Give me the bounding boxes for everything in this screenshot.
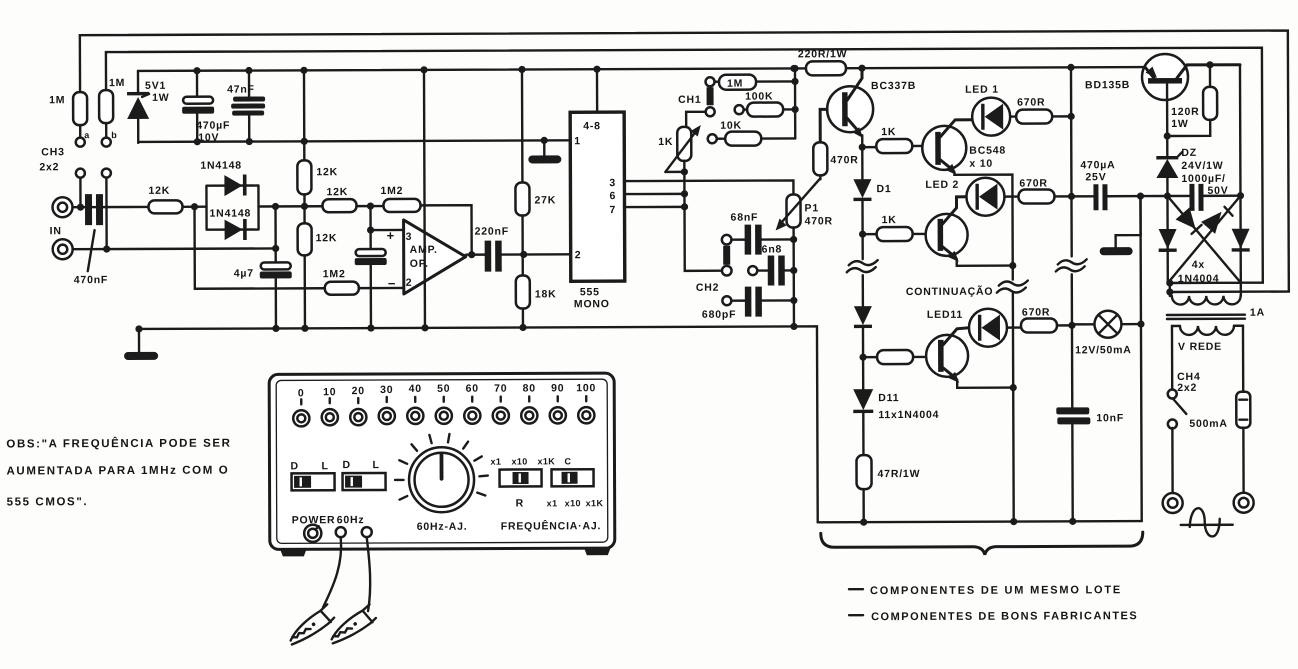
svg-text:3: 3	[609, 177, 616, 189]
label CH3 2x2	[39, 146, 65, 173]
svg-text:1N4148: 1N4148	[210, 208, 252, 220]
lamp 12V/50mA	[1072, 311, 1141, 357]
svg-text:CH3: CH3	[41, 146, 64, 158]
svg-text:11x1N4004: 11x1N4004	[878, 409, 939, 421]
svg-text:80: 80	[523, 382, 536, 394]
node 12K/diode-box	[191, 203, 198, 210]
svg-text:100K: 100K	[745, 91, 773, 103]
svg-text:+: +	[387, 228, 395, 243]
svg-text:AUMENTADA PARA 1MHz COM O: AUMENTADA PARA 1MHz COM O	[6, 465, 229, 478]
rectifier bridge 4x 1N4004	[1158, 196, 1249, 285]
capacitor 4u7	[234, 262, 292, 332]
wire collector down to bridge	[1236, 65, 1244, 200]
resistor 1K base Q11	[863, 350, 925, 364]
svg-text:D1: D1	[876, 183, 891, 195]
svg-text:CH1: CH1	[678, 94, 701, 106]
resistor 27K	[515, 66, 556, 255]
svg-text:220nF: 220nF	[475, 226, 509, 238]
svg-text:MONO: MONO	[574, 298, 610, 310]
svg-text:470R: 470R	[830, 154, 858, 166]
jack IN top	[52, 197, 72, 217]
resistor R 1M (left a)	[49, 92, 87, 138]
svg-text:CH2: CH2	[696, 282, 719, 294]
instrument panel body	[269, 373, 615, 549]
ground left	[124, 329, 158, 360]
svg-text:D: D	[342, 459, 350, 471]
wire rail +V y69	[138, 67, 1145, 71]
LED 2	[925, 178, 1004, 216]
svg-text:1K: 1K	[658, 136, 673, 148]
resistor 670R (LED2)	[1004, 177, 1071, 203]
wire box to node	[259, 205, 323, 208]
wire range bus	[791, 65, 798, 139]
resistor 10K range	[708, 119, 796, 145]
svg-text:OBS:"A FREQUÊNCIA PODE SER: OBS:"A FREQUÊNCIA PODE SER	[6, 437, 231, 451]
svg-text:x10: x10	[511, 456, 527, 466]
wire pin6	[624, 190, 688, 197]
wire CH1 to 1K pot	[686, 112, 706, 127]
svg-text:555 CMOS".: 555 CMOS".	[7, 496, 89, 508]
wire DC rail to bridge	[1140, 192, 1171, 199]
svg-text:18K: 18K	[535, 288, 557, 300]
svg-text:BC548: BC548	[969, 145, 1006, 157]
panel scale ticks	[301, 396, 586, 404]
svg-text:100: 100	[576, 382, 596, 394]
wire pot to CH2	[684, 172, 721, 271]
panel foot left	[280, 548, 307, 556]
diode pair 1N4148 box	[200, 159, 258, 240]
ground mid-right	[1099, 196, 1140, 255]
node chain/1K11	[859, 354, 866, 361]
svg-text:FREQUÊNCIA·AJ.: FREQUÊNCIA·AJ.	[501, 519, 602, 532]
svg-text:x1K: x1K	[586, 498, 604, 508]
svg-text:x1: x1	[490, 457, 501, 467]
svg-text:50V: 50V	[1207, 185, 1228, 197]
svg-text:10nF: 10nF	[1096, 412, 1124, 424]
node P1/68nF	[790, 236, 797, 243]
switch CH3 pole a	[76, 169, 85, 208]
brace components	[821, 532, 1143, 555]
svg-text:C: C	[564, 456, 571, 466]
node 12K column	[301, 203, 308, 210]
svg-text:12V/50mA: 12V/50mA	[1075, 344, 1132, 356]
panel foot right	[584, 547, 611, 555]
svg-text:D: D	[290, 460, 298, 472]
node DZ top	[1164, 132, 1171, 139]
panel switch R multiplier	[490, 456, 571, 509]
svg-text:24V/1W: 24V/1W	[1181, 160, 1223, 172]
svg-text:LED11: LED11	[927, 309, 963, 321]
svg-text:1M: 1M	[109, 77, 125, 89]
wire IN bottom	[73, 247, 276, 250]
svg-text:10: 10	[323, 386, 336, 398]
svg-text:70: 70	[494, 383, 507, 395]
svg-text:1W: 1W	[152, 92, 169, 104]
svg-text:R: R	[516, 497, 524, 509]
switch CH4 2x2	[1167, 326, 1200, 429]
node 670R-3	[1068, 322, 1075, 329]
svg-text:555: 555	[580, 286, 600, 298]
note OBS	[6, 437, 231, 509]
node box out	[272, 203, 279, 210]
svg-text:4-8: 4-8	[583, 120, 601, 132]
panel knob 60Hz-AJ	[395, 434, 488, 533]
svg-text:OP.: OP.	[410, 258, 429, 270]
svg-text:4µ7: 4µ7	[234, 268, 254, 280]
svg-text:2: 2	[406, 277, 413, 289]
jack IN bottom	[50, 225, 73, 259]
svg-text:10K: 10K	[720, 120, 742, 132]
svg-text:40: 40	[409, 383, 422, 395]
alligator clip 2	[325, 604, 378, 645]
capacitor 1000uF/50V	[1167, 173, 1240, 211]
svg-text:x1: x1	[547, 498, 558, 508]
node opamp output	[466, 251, 486, 258]
node bridge bottom	[1166, 279, 1173, 296]
svg-text:x1K: x1K	[537, 456, 555, 466]
svg-text:670R: 670R	[1017, 96, 1045, 108]
wire 555 pins 4-8 to rail	[593, 66, 600, 113]
switch CH2	[696, 235, 732, 294]
diode zener DZ 24V/1W	[1156, 136, 1223, 196]
node 670R-2	[1009, 193, 1075, 269]
capacitor 220nF	[475, 225, 571, 271]
svg-text:BD135B: BD135B	[1085, 79, 1130, 91]
node pot bottom	[681, 168, 688, 175]
wire pin3 to P1	[624, 180, 793, 195]
svg-text:68nF: 68nF	[731, 212, 759, 224]
capacitor 47nF	[227, 67, 265, 145]
switch CH3 contact a	[76, 130, 91, 147]
svg-text:670R: 670R	[1019, 177, 1047, 189]
resistor R 1M (left b)	[99, 77, 125, 138]
capacitor 680pF	[702, 286, 794, 320]
node a-pole on IN wire	[77, 204, 84, 211]
transformer primary V REDE	[1178, 326, 1234, 353]
svg-text:470µF: 470µF	[196, 120, 230, 132]
svg-text:DZ: DZ	[1181, 147, 1197, 159]
svg-text:x10: x10	[565, 498, 581, 508]
annotation line 1	[849, 584, 1122, 597]
svg-text:220R/1W: 220R/1W	[798, 48, 847, 60]
node D1/1K	[859, 231, 866, 238]
potentiometer 1K	[658, 125, 701, 172]
LED11	[927, 309, 1007, 347]
resistor 12K vertical lower	[298, 206, 338, 332]
resistor 470R wiper	[813, 142, 858, 179]
diode D1	[853, 147, 891, 234]
wire bottom rail right section	[818, 521, 1142, 522]
svg-text:0: 0	[298, 387, 305, 399]
node pin2	[520, 251, 527, 258]
diode chain middle	[854, 306, 872, 357]
svg-text:b: b	[111, 130, 117, 140]
wire bottom rail left section	[135, 323, 817, 525]
svg-text:12K: 12K	[148, 185, 170, 197]
svg-text:12K: 12K	[326, 186, 348, 198]
svg-text:IN: IN	[50, 225, 62, 237]
resistor 12K vertical upper	[297, 67, 338, 207]
IC U2 555 MONO	[570, 112, 625, 310]
svg-text:90: 90	[551, 382, 564, 394]
wire +input	[367, 206, 404, 234]
wire top outer loop	[80, 31, 1289, 297]
svg-text:47nF: 47nF	[227, 84, 255, 96]
capacitor 68nF	[731, 211, 794, 254]
svg-text:COMPONENTES DE UM MESMO LOTE: COMPONENTES DE UM MESMO LOTE	[870, 584, 1122, 597]
svg-text:6n8: 6n8	[762, 243, 783, 255]
transformer core	[1167, 307, 1265, 319]
svg-text:60Hz: 60Hz	[337, 514, 365, 526]
test lead 1	[323, 538, 342, 607]
svg-text:−: −	[388, 276, 396, 291]
wire feedback to output	[421, 205, 472, 255]
wire -input from 1M2	[195, 206, 325, 288]
svg-text:a: a	[84, 130, 90, 140]
svg-text:5V1: 5V1	[145, 80, 166, 92]
transistor Q11	[926, 328, 1013, 388]
svg-text:L: L	[372, 459, 379, 471]
capacitor 470uF 10V	[182, 67, 230, 145]
svg-text:x 10: x 10	[969, 158, 993, 170]
svg-text:470R: 470R	[805, 215, 833, 227]
svg-text:50: 50	[437, 383, 450, 395]
resistor 670R (LED1)	[1010, 96, 1071, 123]
break marks emitter bus + CONTINUACAO	[906, 281, 1029, 298]
switch CH3 pole b	[102, 169, 111, 250]
svg-text:BC337B: BC337B	[871, 80, 916, 92]
alligator clip 1	[284, 604, 337, 646]
wire mid vertical	[1137, 196, 1145, 521]
svg-text:1A: 1A	[1250, 307, 1265, 319]
break marks diode chain	[847, 234, 879, 306]
plug pin left	[1162, 428, 1182, 513]
svg-text:P1: P1	[804, 202, 818, 214]
svg-text:1N4004: 1N4004	[1178, 273, 1220, 285]
resistor 100K range	[735, 90, 796, 116]
node Q1 emitter	[859, 144, 866, 151]
svg-text:COMPONENTES DE BONS FABRICANTE: COMPONENTES DE BONS FABRICANTES	[871, 610, 1138, 623]
resistor 12K horizontal input	[148, 185, 206, 214]
node mid rail	[1137, 192, 1144, 199]
svg-text:47R/1W: 47R/1W	[878, 468, 921, 480]
svg-text:27K: 27K	[534, 194, 556, 206]
svg-text:LED 2: LED 2	[925, 179, 959, 191]
svg-text:D11: D11	[878, 392, 899, 404]
svg-text:25V: 25V	[1085, 171, 1106, 183]
svg-text:1K: 1K	[882, 214, 897, 226]
panel 60Hz jack 2	[362, 527, 372, 537]
resistor 1M range	[715, 74, 796, 89]
svg-text:470µA: 470µA	[1080, 159, 1115, 171]
capacitor 470nF	[73, 194, 108, 286]
annotation line 2	[849, 610, 1138, 623]
svg-text:L: L	[321, 460, 328, 472]
AC sine symbol	[1181, 508, 1233, 537]
fuse 500mA	[1189, 326, 1250, 430]
panel label FREQUENCIA-AJ	[501, 519, 602, 532]
svg-text:1K: 1K	[881, 126, 896, 138]
svg-text:V REDE: V REDE	[1178, 341, 1222, 353]
wire top inner loop	[106, 48, 1263, 287]
svg-text:1M: 1M	[49, 94, 65, 106]
svg-text:2x2: 2x2	[39, 161, 59, 173]
svg-text:3: 3	[406, 231, 413, 243]
panel power jack	[304, 525, 321, 542]
svg-text:1M2: 1M2	[323, 268, 346, 280]
svg-text:670R: 670R	[1022, 306, 1050, 318]
transistor Q BD135B	[1085, 54, 1240, 137]
resistor 670R (LED11)	[1007, 306, 1072, 332]
resistor 120R 1W	[1167, 61, 1217, 136]
resistor 12K horizontal second	[322, 186, 383, 212]
diode D11	[853, 357, 939, 455]
switch CH1	[678, 77, 715, 116]
panel 60Hz jack 1	[336, 527, 346, 537]
svg-text:4x: 4x	[1192, 259, 1205, 271]
node b-pole on IN- wire	[103, 245, 110, 252]
plug pin right	[1233, 428, 1253, 513]
svg-text:1000µF/: 1000µF/	[1181, 173, 1225, 185]
svg-text:470nF: 470nF	[74, 274, 108, 286]
svg-text:1M: 1M	[727, 78, 743, 90]
wire vertical rail-to-ground crossing opamp	[420, 66, 428, 331]
svg-text:20: 20	[352, 385, 365, 397]
ground pin1 rail	[528, 137, 561, 164]
svg-text:1W: 1W	[1171, 118, 1188, 130]
panel scale numbers and jacks	[298, 382, 596, 399]
LED1	[965, 84, 1010, 136]
node 680pF	[790, 297, 797, 304]
svg-text:7: 7	[609, 204, 616, 216]
transistor Q1 BC337B	[820, 68, 916, 147]
break marks collector bus	[1056, 259, 1088, 324]
node 12K/1M2	[367, 202, 374, 209]
wire vertical 4u7 column	[272, 206, 279, 262]
panel jack row	[293, 407, 594, 426]
wire timing bus down	[790, 239, 798, 330]
svg-text:2x2: 2x2	[1177, 382, 1197, 394]
svg-text:1: 1	[574, 135, 581, 147]
op-amp U1 AMP OP	[387, 220, 466, 294]
svg-text:60: 60	[466, 383, 479, 395]
svg-text:10V: 10V	[198, 132, 219, 144]
svg-text:12K: 12K	[316, 166, 338, 178]
svg-text:6: 6	[609, 190, 616, 202]
svg-text:500mA: 500mA	[1189, 418, 1227, 430]
wire rail y140	[138, 140, 570, 142]
svg-text:1N4148: 1N4148	[200, 160, 242, 172]
panel switch DL 1	[290, 460, 334, 490]
svg-text:120R: 120R	[1171, 106, 1199, 118]
node 670R-1 rail	[1067, 64, 1074, 120]
svg-text:CONTINUAÇÃO: CONTINUAÇÃO	[906, 285, 994, 298]
diode zener 5V1/1W	[127, 71, 170, 143]
svg-text:LED 1: LED 1	[965, 84, 999, 96]
trimpot P1 470R	[775, 179, 833, 239]
svg-text:30: 30	[380, 384, 393, 396]
svg-text:12K: 12K	[316, 232, 338, 244]
svg-text:2: 2	[575, 249, 582, 261]
test lead 2	[367, 538, 371, 611]
wire collector bus down	[1070, 67, 1073, 256]
transformer T1 secondary	[1172, 283, 1241, 305]
wire pin7	[624, 203, 688, 210]
svg-text:680pF: 680pF	[702, 309, 736, 321]
panel switch C multiplier	[547, 469, 604, 508]
resistor 18K	[516, 254, 557, 331]
resistor 1M2 inverting	[323, 268, 404, 295]
capacitor 470uA 25V	[1071, 159, 1140, 210]
svg-text:1M2: 1M2	[380, 185, 403, 197]
svg-text:60Hz-AJ.: 60Hz-AJ.	[417, 521, 468, 533]
wire emitter bus to rail	[1009, 266, 1017, 526]
node 6n8	[790, 267, 797, 274]
resistor 47R/1W	[856, 455, 920, 526]
resistor 1M2 feedback	[380, 185, 420, 212]
resistor 220R/1W	[790, 48, 865, 75]
capacitor +input electrolytic	[355, 230, 387, 332]
resistor 1K base Q3	[863, 214, 925, 241]
panel POWER 60Hz labels	[292, 514, 365, 526]
switch CH3 contact b	[102, 130, 118, 147]
transistor Q3	[925, 197, 1012, 266]
wire IN top to 12K	[73, 206, 149, 209]
panel switch DL 2	[342, 459, 385, 490]
capacitor 10nF	[1056, 325, 1124, 525]
capacitor 6n8	[748, 243, 794, 285]
resistor 1K base Q2-driver	[862, 126, 922, 153]
transistor Q2 BC548 x10	[922, 120, 1013, 266]
